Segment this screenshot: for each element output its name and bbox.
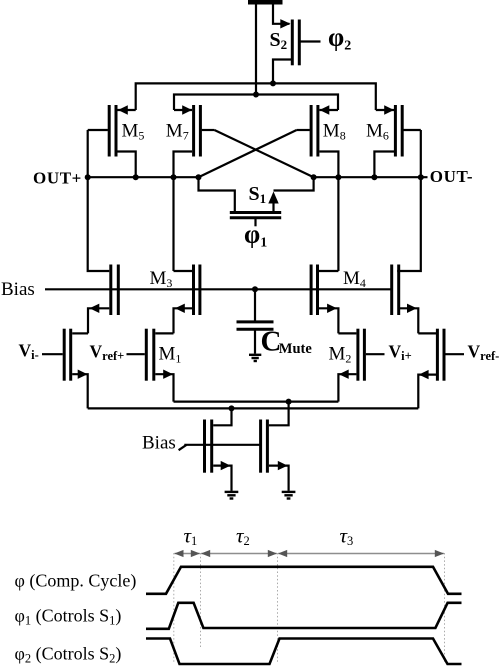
dimension arrow tau1 xyxy=(174,550,200,557)
svg-text:S2: S2 xyxy=(270,29,288,52)
svg-text:S1: S1 xyxy=(249,183,267,206)
node OUT- at M8 drain xyxy=(335,174,341,180)
wire M6-gate/OUT- column down to right cascode drain xyxy=(397,130,421,271)
svg-text:φ2 (Cotrols S2): φ2 (Cotrols S2) xyxy=(15,644,122,666)
ground for tail right xyxy=(282,492,296,499)
wire cross-couple diagonal from M7 gate xyxy=(214,130,313,177)
svg-text:φ2: φ2 xyxy=(328,22,351,53)
svg-text:Mute: Mute xyxy=(279,341,313,357)
svg-text:M4: M4 xyxy=(343,268,366,290)
transistor tail right xyxy=(261,402,289,491)
transistor S2 xyxy=(273,3,321,83)
svg-text:M3: M3 xyxy=(150,268,173,290)
svg-text:M1: M1 xyxy=(159,344,182,366)
wire tail gate line xyxy=(184,444,259,446)
transistor right cascode xyxy=(392,265,419,334)
ground for tail left xyxy=(225,492,239,499)
wire OUT+ rail xyxy=(88,176,199,178)
wire outer VDD rail xyxy=(136,83,376,110)
dotted guide line tau boundary 3 xyxy=(277,553,279,664)
node OUT+ at M5 gate column xyxy=(85,174,91,180)
switch S1 xyxy=(199,177,314,226)
svg-text:OUT+: OUT+ xyxy=(33,169,82,188)
wire Bias rail xyxy=(45,288,393,290)
svg-text:φ1: φ1 xyxy=(244,220,267,251)
svg-text:Bias: Bias xyxy=(1,279,35,300)
node OUT+ at M5 source xyxy=(133,174,139,180)
wire OUT- rail xyxy=(314,176,428,178)
capacitor CMute xyxy=(237,289,274,353)
node inner tail rail junction xyxy=(286,399,292,405)
svg-text:τ2: τ2 xyxy=(236,524,250,549)
svg-text:OUT-: OUT- xyxy=(430,167,473,186)
svg-text:Vref+: Vref+ xyxy=(90,342,125,364)
waveform phi2 xyxy=(146,639,462,665)
wire M5-gate/OUT+ column down to left cascode drain xyxy=(88,130,110,271)
svg-text:M8: M8 xyxy=(323,121,346,143)
transistor Vi- input xyxy=(42,329,88,409)
svg-text:φ1 (Cotrols S1): φ1 (Cotrols S1) xyxy=(15,606,122,628)
transistor Vref- input xyxy=(418,329,464,409)
wire cross-couple diagonal from M8 gate xyxy=(199,130,297,177)
node CMute tap on Bias rail xyxy=(252,286,258,292)
svg-text:Vi-: Vi- xyxy=(19,340,39,362)
waveform phi1 xyxy=(146,603,462,629)
node OUT+ at M7 drain xyxy=(171,174,177,180)
dotted guide line tau boundary 4 xyxy=(444,553,446,664)
transistor M5 xyxy=(88,105,136,177)
wire outer tail rail xyxy=(88,407,419,409)
svg-text:Bias: Bias xyxy=(142,432,176,453)
svg-text:M7: M7 xyxy=(166,121,189,143)
transistor tail left xyxy=(205,408,232,491)
node center on inner rail xyxy=(253,92,259,98)
transistor M2 xyxy=(338,329,384,402)
transistor M6 xyxy=(374,105,420,177)
node OUT+ at S1 left xyxy=(196,174,202,180)
svg-text:φ (Comp. Cycle): φ (Comp. Cycle) xyxy=(15,571,137,592)
transistor M1 xyxy=(127,329,174,402)
wire Bias tick xyxy=(179,445,187,450)
svg-text:Vi+: Vi+ xyxy=(389,342,412,364)
waveform phi xyxy=(146,567,462,594)
dotted guide line tau boundary 2 xyxy=(200,553,202,649)
transistor left cascode xyxy=(88,265,118,334)
node OUT- at M6 source xyxy=(371,174,377,180)
node outer tail rail junction xyxy=(229,405,235,411)
svg-text:Vref-: Vref- xyxy=(468,342,500,364)
svg-text:M2: M2 xyxy=(329,344,352,366)
transistor M3 xyxy=(174,265,200,334)
transistor M4 xyxy=(311,265,338,334)
svg-text:M6: M6 xyxy=(366,121,389,143)
dimension arrow tau3 xyxy=(278,550,444,557)
wire inner VDD rail xyxy=(174,95,338,111)
node OUT- at S1 right xyxy=(311,174,317,180)
dimension arrow tau2 xyxy=(201,550,277,557)
svg-text:τ1: τ1 xyxy=(184,524,198,549)
svg-text:τ3: τ3 xyxy=(340,524,354,549)
transistor M7 xyxy=(174,105,215,271)
dotted guide line tau boundary 1 xyxy=(173,553,175,664)
VDD supply bar xyxy=(248,0,283,5)
svg-text:M5: M5 xyxy=(122,121,145,143)
transistor M8 xyxy=(297,105,339,271)
node OUT- at M6 gate column xyxy=(418,174,424,180)
wire inner tail rail xyxy=(174,401,339,403)
wire VDD vertical to rails xyxy=(255,3,257,95)
node S2 source on outer rail xyxy=(270,80,276,86)
ground for CMute xyxy=(249,355,261,361)
